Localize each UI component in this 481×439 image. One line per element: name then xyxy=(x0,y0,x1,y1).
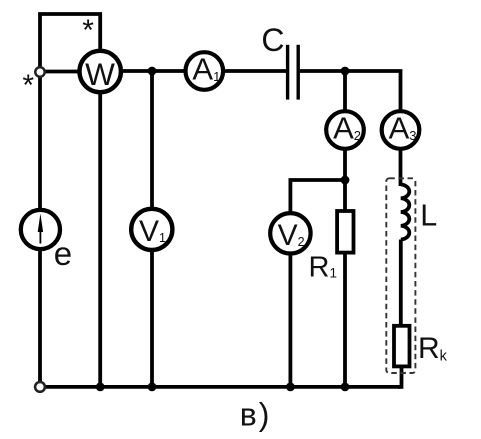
wire: A1 to capacitor C left plate xyxy=(223,69,286,73)
svg-text:C: C xyxy=(261,22,284,58)
svg-text:в): в) xyxy=(240,396,272,432)
wire: Rk bottom to bottom rail corner xyxy=(398,366,402,387)
wire: wattmeter voltage-coil loop (top-left box) xyxy=(40,14,100,67)
inductor L coil xyxy=(401,185,410,240)
node: bottom rail / V1 branch xyxy=(148,383,157,392)
voltmeter V1 xyxy=(131,209,172,250)
resistor Rk body xyxy=(394,326,410,367)
wire: top wire junction down to V1 xyxy=(150,71,154,209)
wire: top wire junction down to A2 xyxy=(343,71,347,111)
wire: A2 bottom to R1 top (through node) xyxy=(343,149,347,211)
terminal: lower input (open circle) xyxy=(35,382,45,392)
node: top wire / V1 branch xyxy=(148,67,157,76)
wire: V1 bottom to bottom rail xyxy=(150,250,154,387)
wire: V2 bottom to bottom rail xyxy=(288,253,292,387)
wire: W right terminal to A1 xyxy=(121,69,186,73)
resistor R1 body xyxy=(337,211,353,253)
ammeter A3 xyxy=(382,111,420,149)
node: A2-R1 branch / V2 tap xyxy=(341,176,350,185)
voltmeter V2 xyxy=(270,213,310,253)
svg-text:L: L xyxy=(420,199,437,233)
terminal: upper input (open circle) xyxy=(35,67,44,76)
dashed box around L and Rk xyxy=(386,178,415,373)
node: bottom rail / R1 branch xyxy=(341,383,350,392)
wire: node down to source e xyxy=(38,77,42,210)
wire: A3 bottom to inductor L xyxy=(399,149,403,186)
ammeter A2 xyxy=(326,111,364,149)
wire: R1 bottom to bottom rail xyxy=(343,253,347,387)
wire: source e bottom to lower terminal xyxy=(38,249,42,381)
capacitor C plates xyxy=(288,45,299,100)
ammeter A1 xyxy=(186,52,224,90)
wattmeter W xyxy=(80,51,121,92)
node: bottom rail / V2 branch xyxy=(286,383,295,392)
svg-text:*: * xyxy=(22,69,34,102)
wire: inductor to Rk xyxy=(399,240,403,326)
wire: W bottom terminal to bottom rail xyxy=(98,92,102,387)
node: top wire / A2 branch xyxy=(341,67,350,76)
wire: node to V2 top (L-bend) xyxy=(290,180,345,213)
wire: bottom rail xyxy=(45,385,401,389)
wire: capacitor right plate to top-right corner, down to A3 xyxy=(300,71,401,111)
source e (circle with arrow) xyxy=(21,210,60,249)
svg-text:W: W xyxy=(85,56,115,92)
svg-text:*: * xyxy=(82,14,94,47)
wire: node to wattmeter W left terminal xyxy=(45,70,80,74)
svg-text:e: e xyxy=(54,235,72,272)
node: bottom rail / W branch xyxy=(96,383,105,392)
junction node dots xyxy=(96,67,350,392)
